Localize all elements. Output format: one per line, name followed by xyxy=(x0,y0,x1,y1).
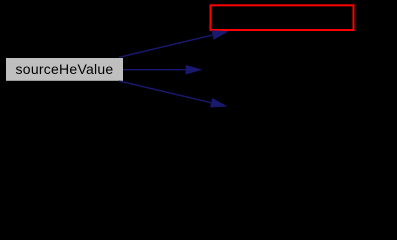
node (red-bordered, unlabeled) xyxy=(211,5,354,30)
edge middle xyxy=(123,65,203,75)
edge to red node xyxy=(119,30,229,57)
node sourceHeValue xyxy=(6,58,123,81)
edge bottom xyxy=(119,81,228,107)
svg-text:sourceHeValue: sourceHeValue xyxy=(16,61,114,77)
